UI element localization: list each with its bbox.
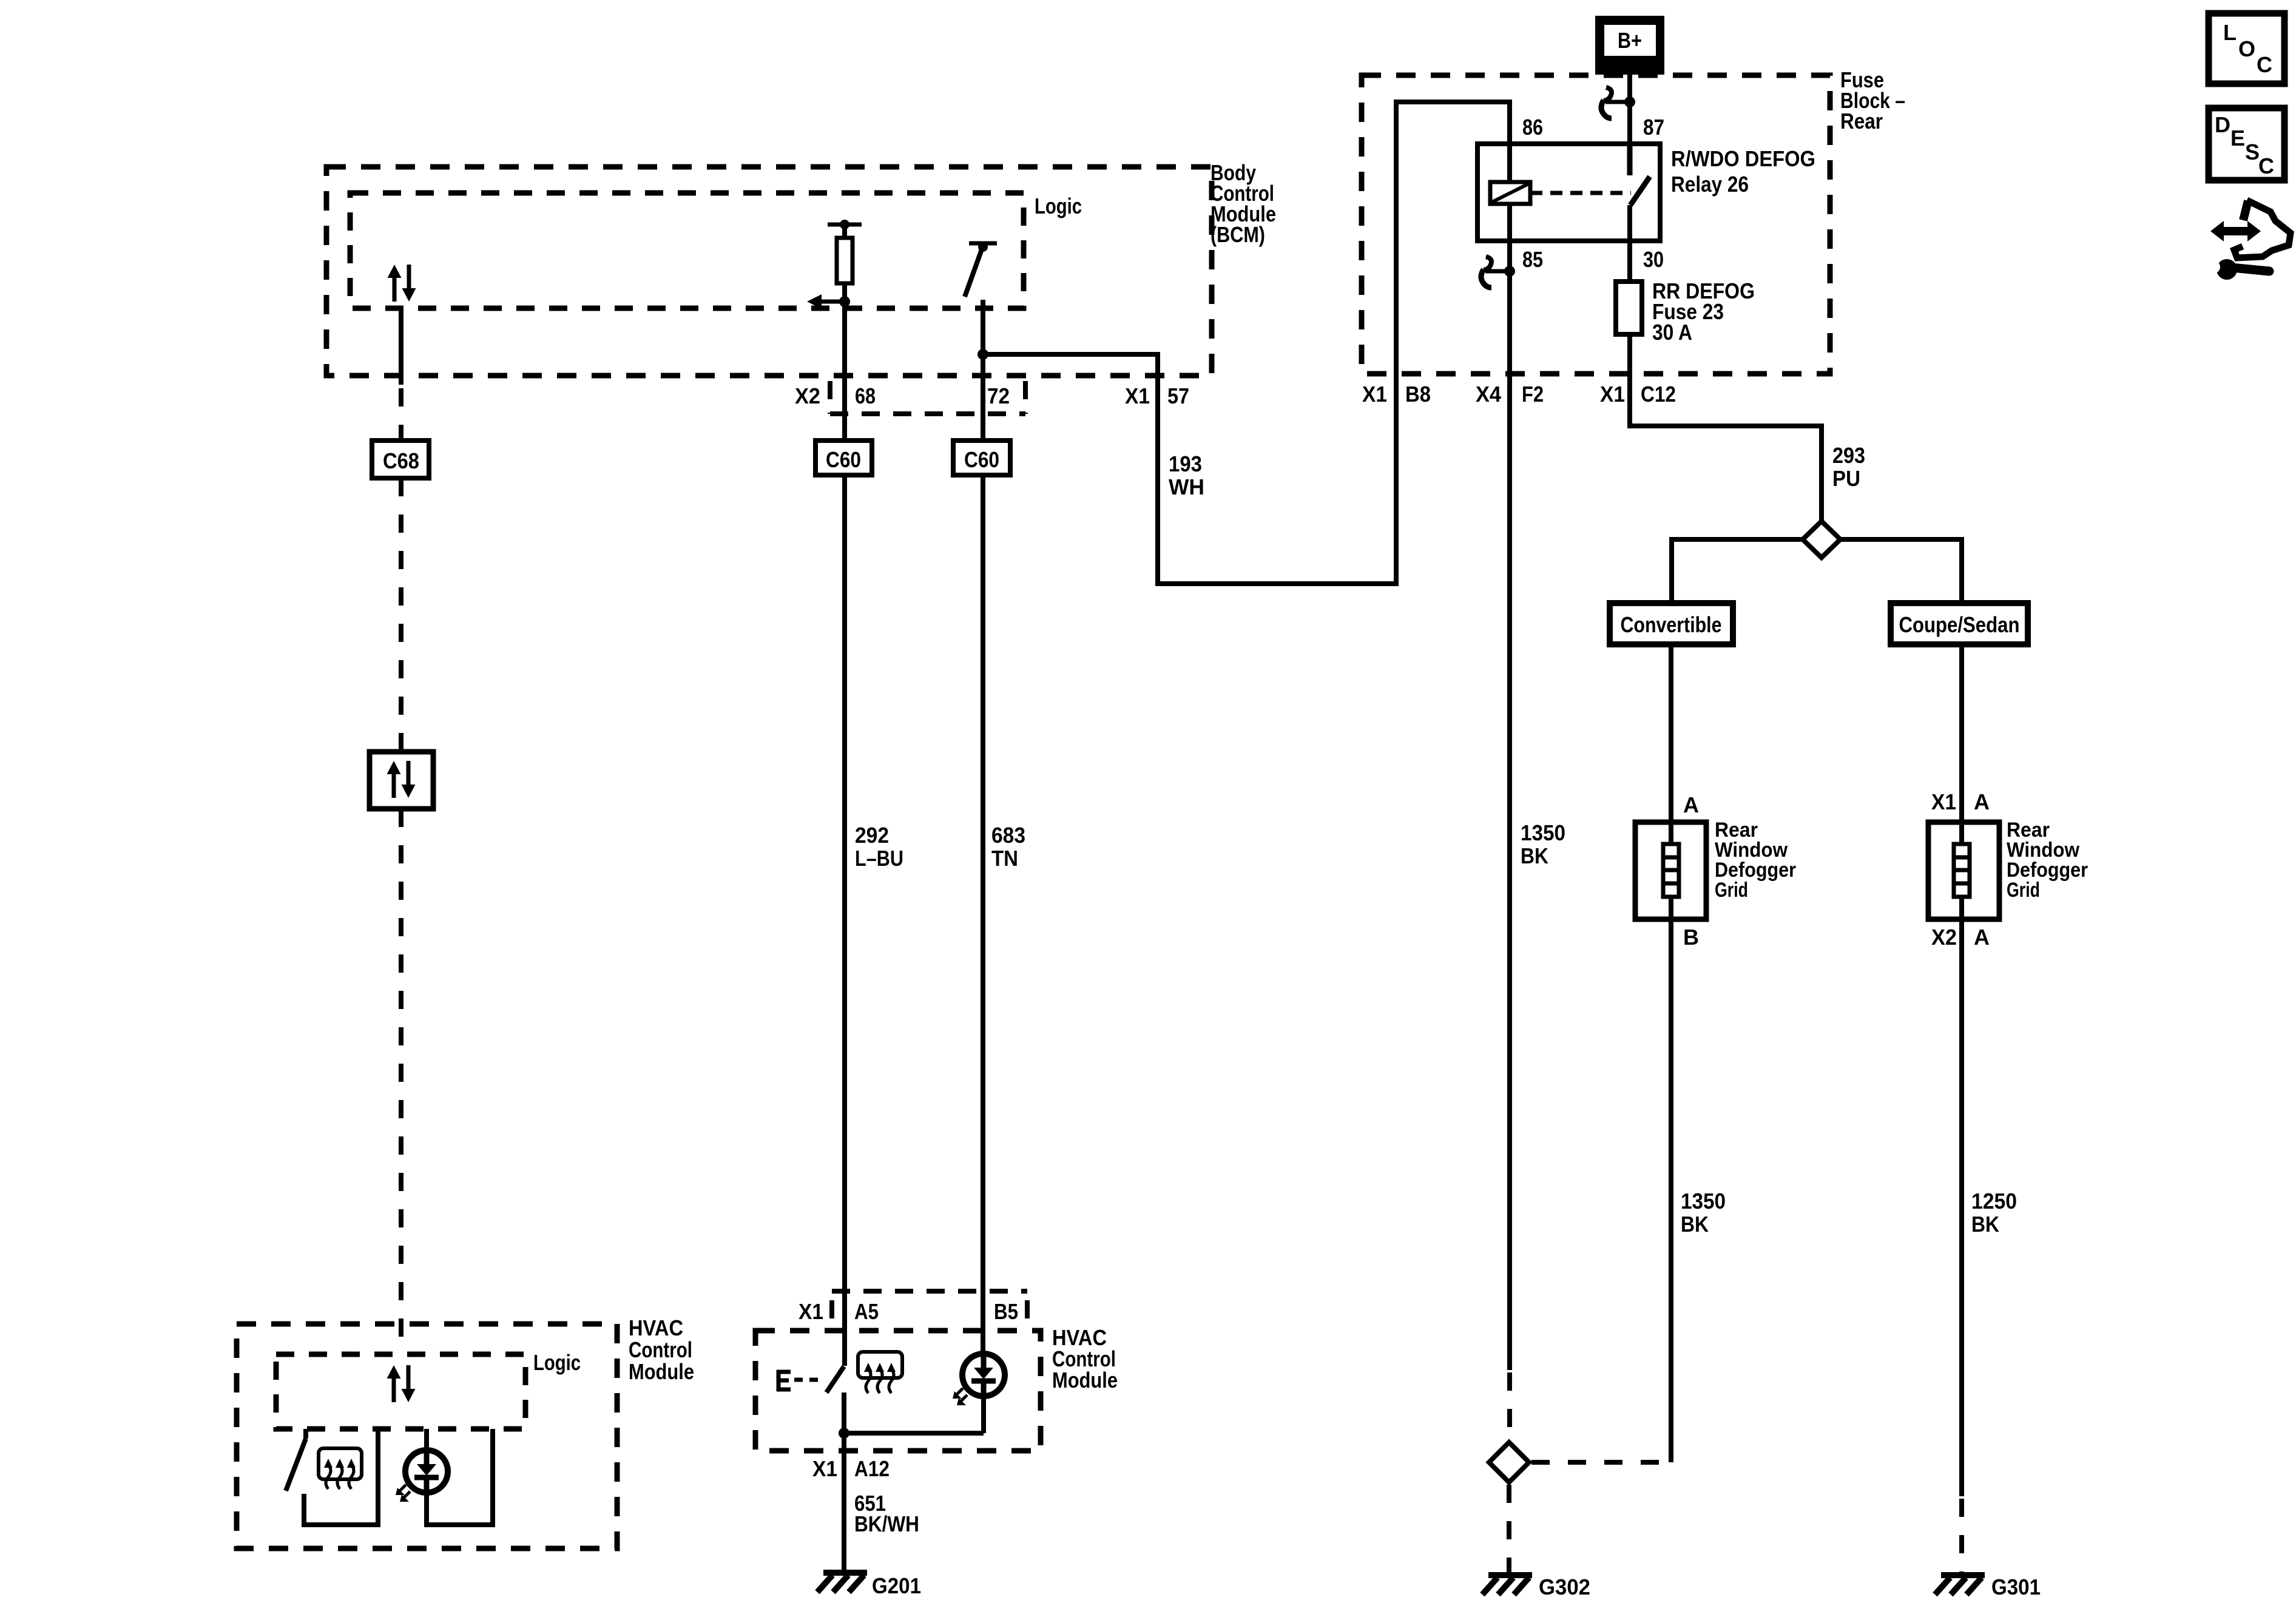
svg-text:Relay 26: Relay 26 [1671, 172, 1749, 197]
svg-text:B8: B8 [1405, 382, 1431, 407]
svg-text:B: B [1683, 925, 1699, 950]
svg-text:X2: X2 [1931, 925, 1957, 950]
svg-text:193: 193 [1169, 451, 1202, 476]
svg-text:30: 30 [1643, 247, 1664, 272]
svg-text:S: S [2245, 140, 2260, 164]
svg-text:C60: C60 [826, 447, 861, 472]
svg-text:C68: C68 [383, 448, 419, 473]
svg-text:292: 292 [855, 823, 889, 848]
svg-text:PU: PU [1832, 466, 1860, 491]
svg-text:G301: G301 [1991, 1575, 2041, 1599]
svg-text:BK: BK [1521, 843, 1548, 868]
svg-text:TN: TN [991, 846, 1018, 871]
svg-text:B5: B5 [994, 1299, 1018, 1324]
svg-text:HVAC: HVAC [629, 1315, 683, 1340]
svg-text:L–BU: L–BU [855, 846, 903, 871]
svg-text:Grid: Grid [1715, 879, 1748, 902]
svg-text:BK/WH: BK/WH [854, 1511, 919, 1536]
svg-text:Module: Module [1052, 1368, 1118, 1393]
svg-text:Rear: Rear [1840, 109, 1883, 133]
svg-text:C: C [2257, 52, 2272, 77]
svg-text:293: 293 [1832, 443, 1865, 468]
svg-text:O: O [2238, 36, 2255, 61]
svg-text:BK: BK [1971, 1212, 1999, 1237]
svg-text:BK: BK [1681, 1212, 1709, 1237]
svg-text:1350: 1350 [1521, 820, 1565, 845]
svg-text:X1: X1 [812, 1456, 837, 1481]
svg-text:Control: Control [629, 1337, 692, 1362]
svg-text:Logic: Logic [1035, 194, 1082, 218]
svg-text:X1: X1 [1125, 383, 1150, 408]
svg-text:Module: Module [629, 1359, 694, 1384]
svg-text:X2: X2 [795, 383, 820, 408]
svg-text:C: C [2258, 154, 2274, 178]
svg-text:683: 683 [991, 823, 1025, 848]
svg-text:X1: X1 [1362, 382, 1387, 407]
svg-text:B+: B+ [1618, 28, 1642, 53]
svg-text:57: 57 [1167, 383, 1189, 408]
svg-text:A: A [1974, 925, 1990, 950]
svg-text:85: 85 [1522, 247, 1543, 272]
svg-text:X1: X1 [1600, 382, 1625, 407]
svg-text:R/WDO DEFOG: R/WDO DEFOG [1671, 146, 1815, 171]
svg-text:F2: F2 [1522, 382, 1544, 407]
svg-text:1250: 1250 [1971, 1189, 2017, 1214]
svg-text:30 A: 30 A [1652, 320, 1692, 345]
svg-text:X4: X4 [1476, 382, 1501, 407]
svg-text:86: 86 [1522, 115, 1543, 140]
svg-text:A5: A5 [854, 1299, 879, 1324]
svg-text:68: 68 [855, 383, 876, 408]
svg-text:A: A [1683, 792, 1699, 817]
svg-text:G302: G302 [1539, 1575, 1590, 1599]
svg-text:C60: C60 [964, 447, 999, 472]
svg-text:E: E [2230, 126, 2245, 150]
svg-text:X1: X1 [1931, 789, 1956, 814]
svg-text:Coupe/Sedan: Coupe/Sedan [1899, 612, 2020, 637]
svg-text:Grid: Grid [2007, 879, 2040, 902]
svg-text:Logic: Logic [533, 1350, 581, 1375]
svg-text:D: D [2215, 112, 2230, 137]
svg-text:(BCM): (BCM) [1210, 222, 1265, 247]
svg-text:G201: G201 [872, 1573, 921, 1598]
svg-text:C12: C12 [1641, 382, 1676, 407]
svg-text:A12: A12 [854, 1456, 890, 1481]
svg-text:72: 72 [987, 383, 1010, 408]
svg-text:Convertible: Convertible [1621, 612, 1722, 637]
svg-text:X1: X1 [799, 1299, 823, 1324]
svg-text:A: A [1974, 789, 1990, 814]
svg-text:1350: 1350 [1681, 1189, 1726, 1214]
svg-text:87: 87 [1643, 115, 1664, 140]
svg-text:WH: WH [1169, 474, 1204, 499]
svg-text:L: L [2223, 20, 2237, 45]
